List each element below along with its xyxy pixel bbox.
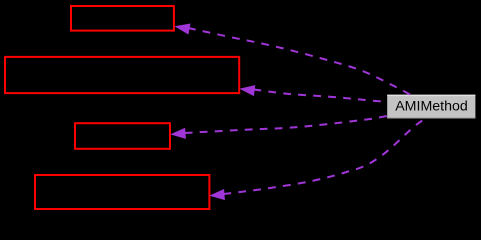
node AMIMethod (gray): [387, 95, 475, 119]
gray box top highlight: [387, 95, 475, 96]
node box 2 (second red class box): [5, 57, 239, 93]
node box 3 (third red class box): [75, 123, 170, 149]
svg-text:AMIMethod: AMIMethod: [395, 99, 468, 115]
arrowhead 3: [170, 128, 186, 139]
gray box bottom shade: [387, 117, 475, 118]
edge 1 (AMIMethod to box 1, dashed): [188, 28, 411, 95]
arrowhead 2: [240, 85, 256, 96]
edge 2 (AMIMethod to box 2, dashed): [254, 90, 388, 103]
arrowhead 4: [209, 189, 225, 200]
edge 4 (AMIMethod to box 4, dashed): [224, 118, 428, 194]
edge 3 (AMIMethod to box 3, dashed): [185, 116, 387, 133]
node box 1 (top red class box): [71, 6, 174, 31]
arrowhead 1: [175, 24, 191, 35]
node box 4 (bottom red class box): [35, 175, 209, 209]
